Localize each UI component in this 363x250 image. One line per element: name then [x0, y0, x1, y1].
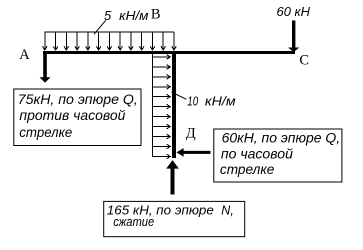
svg-text:10: 10 [187, 94, 198, 109]
svg-text:кН/м: кН/м [205, 94, 236, 109]
svg-text:по часовой: по часовой [221, 145, 293, 161]
svg-text:сжатие: сжатие [113, 215, 154, 229]
svg-text:N,: N, [221, 203, 234, 217]
svg-text:стрелке: стрелке [19, 124, 72, 140]
distributed load 10 kN/m on column [152, 54, 170, 159]
svg-text:С: С [299, 52, 309, 68]
label 10 kN/m [172, 92, 236, 109]
svg-text:стрелке: стрелке [220, 161, 275, 177]
svg-text:А: А [19, 47, 30, 63]
force 60 kN arrow at C [288, 21, 299, 53]
force 60 kN arrow at D [176, 148, 210, 157]
svg-text:5: 5 [104, 8, 112, 23]
callout box 75 kN [14, 89, 141, 146]
svg-text:против часовой: против часовой [19, 107, 125, 123]
callout box 60 kN [214, 129, 342, 182]
svg-text:кН/м: кН/м [119, 8, 148, 23]
label 5 kN/m [94, 8, 149, 34]
svg-text:60кН, по эпюре Q,: 60кН, по эпюре Q, [222, 130, 341, 146]
distributed load 5 kN/m on beam [43, 32, 177, 50]
svg-text:75кН, по эпюре Q,: 75кН, по эпюре Q, [18, 91, 138, 107]
beam A-B-C [43, 51, 295, 54]
callout box 165 kN [104, 201, 245, 236]
force 165 kN arrow at D (axial) [166, 160, 179, 194]
svg-text:Д: Д [186, 125, 196, 141]
column B-D [172, 52, 176, 158]
reaction arrow at A (75 kN) [40, 53, 51, 83]
svg-text:60 кН: 60 кН [277, 4, 311, 19]
svg-text:В: В [151, 7, 161, 23]
